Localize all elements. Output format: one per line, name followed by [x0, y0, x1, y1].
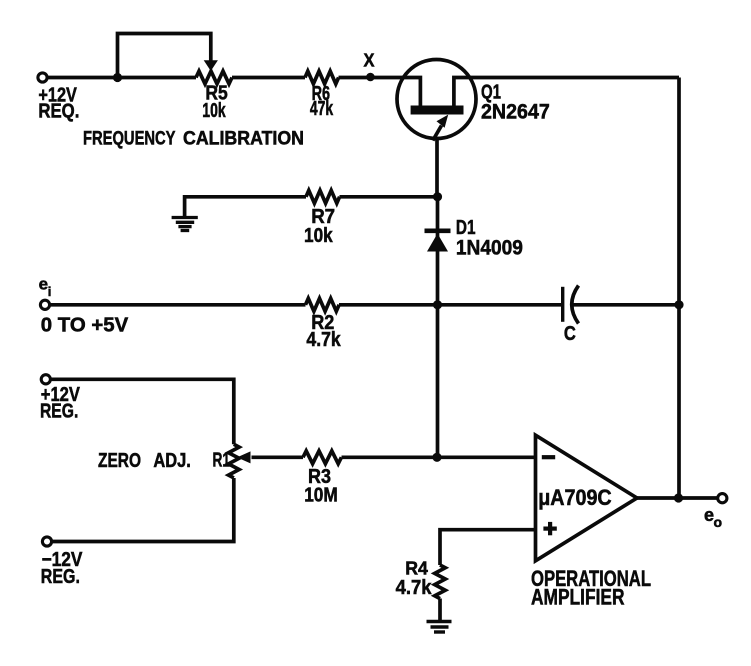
svg-text:4.7k: 4.7k	[396, 577, 433, 599]
node junction D1 rail / e_i rail	[433, 300, 442, 309]
node junction at pot loop	[113, 73, 122, 82]
label R5 10k	[202, 83, 227, 123]
terminal +12V REQ.	[38, 73, 47, 82]
wire capacitor to right rail	[572, 303, 680, 307]
svg-text:REG.: REG.	[40, 401, 78, 423]
op-amp plus sign	[543, 522, 556, 535]
wiper arrow of R5	[204, 60, 218, 71]
label R3 10M	[304, 466, 338, 507]
wire e_i to R2	[50, 303, 306, 307]
label OPERATIONAL AMPLIFIER	[531, 566, 651, 610]
wire R1 bottom to -12V	[52, 478, 234, 542]
svg-text:e: e	[39, 274, 48, 293]
svg-text:C: C	[564, 323, 576, 345]
transistor Q1 emitter arrowhead	[437, 115, 449, 128]
wire junction to R5	[118, 76, 197, 80]
wire Q1 emitter down to R7 rail	[435, 140, 439, 197]
op-amp U1 triangle	[536, 435, 638, 561]
label R7 10k	[304, 206, 335, 247]
label R2 4.7k	[306, 312, 341, 351]
wire R5 to R6	[232, 76, 305, 80]
wire terminal to junction	[48, 76, 118, 80]
label R6 47k	[310, 83, 334, 120]
resistor R5	[196, 71, 232, 84]
label +12V REG.	[40, 384, 80, 423]
transistor Q1 circle	[397, 60, 476, 139]
node junction output / right rail	[674, 493, 683, 502]
svg-text:R4: R4	[405, 559, 428, 579]
svg-text:i: i	[48, 284, 52, 299]
svg-text:X: X	[364, 51, 375, 71]
svg-text:10k: 10k	[202, 100, 226, 122]
terminal e_i	[40, 300, 49, 309]
svg-text:2N2647: 2N2647	[481, 101, 550, 124]
label Q1 2N2647	[481, 81, 550, 123]
resistor R3	[303, 451, 341, 464]
node X	[366, 73, 375, 82]
transistor Q1 emitter	[433, 126, 442, 141]
wire R7 to D1 rail	[340, 195, 438, 199]
resistor R7	[306, 190, 340, 203]
ground symbol below R4	[427, 622, 452, 633]
svg-text:1N4009: 1N4009	[456, 237, 523, 260]
wire R2 to capacitor	[339, 303, 561, 307]
resistor R6	[305, 71, 339, 84]
svg-text:R1: R1	[213, 450, 231, 472]
svg-text:47k: 47k	[310, 98, 334, 120]
wire node X to Q1 base2	[370, 78, 420, 108]
resistor R2	[306, 298, 340, 311]
wire R6 to node X	[339, 76, 371, 80]
svg-text:μA709C: μA709C	[538, 485, 612, 510]
wire R3 to op-amp minus input	[342, 455, 536, 459]
label e_i	[39, 274, 52, 299]
potentiometer R1	[229, 444, 240, 478]
svg-text:4.7k: 4.7k	[306, 329, 341, 351]
svg-text:10M: 10M	[304, 485, 338, 507]
wire right vertical rail	[677, 78, 681, 499]
wiper arrow of R1	[237, 451, 251, 463]
svg-text:ADJ.: ADJ.	[153, 450, 191, 472]
svg-text:10k: 10k	[304, 225, 333, 247]
transistor Q1 base1 lead	[454, 78, 679, 108]
resistor R4	[435, 565, 446, 599]
svg-text:ZERO: ZERO	[98, 450, 141, 472]
node junction cap / right rail	[674, 300, 683, 309]
ground lead near R7	[185, 197, 306, 217]
label R4 4.7k	[396, 559, 433, 599]
svg-text:e: e	[704, 505, 714, 525]
wire R1 wiper to R3	[252, 455, 304, 459]
capacitor C right curved plate	[572, 286, 579, 324]
label e_o	[704, 505, 722, 530]
terminal e_o	[718, 494, 727, 503]
svg-text:REG.: REG.	[41, 566, 80, 588]
label D1 1N4009	[456, 217, 523, 260]
transistor Q1 base bar	[411, 106, 464, 115]
wire R4 to ground	[438, 599, 442, 622]
node junction R7 / emitter rail	[433, 192, 442, 201]
svg-text:CALIBRATION: CALIBRATION	[183, 129, 304, 150]
ground symbol near R7	[172, 218, 198, 231]
svg-text:FREQUENCY: FREQUENCY	[83, 129, 176, 150]
label +12V REQ.	[38, 85, 79, 123]
capacitor C left plate	[561, 287, 564, 322]
svg-text:o: o	[714, 514, 723, 530]
wire op-amp output	[637, 496, 718, 500]
wire plus input	[440, 530, 536, 565]
terminal +12V REG.	[41, 375, 50, 384]
diode D1 triangle	[427, 234, 448, 252]
wire +12V to R1 top	[51, 379, 234, 444]
svg-text:0 TO +5V: 0 TO +5V	[41, 315, 129, 337]
node junction D1 rail / minus input	[432, 453, 441, 462]
svg-text:REQ.: REQ.	[38, 101, 79, 123]
label ZERO ADJ. R1	[98, 450, 230, 472]
wire pot wiper loop	[118, 34, 211, 78]
diode D1 cathode bar	[425, 229, 451, 234]
op-amp minus sign	[542, 455, 555, 459]
label -12V REG.	[41, 549, 83, 588]
svg-text:AMPLIFIER: AMPLIFIER	[531, 585, 625, 610]
wire D1 vertical rail	[436, 197, 440, 457]
terminal -12V REG.	[42, 537, 51, 546]
